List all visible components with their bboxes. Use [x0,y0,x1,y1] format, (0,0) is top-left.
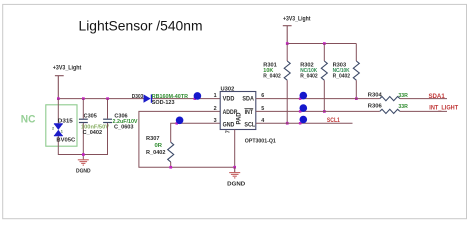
svg-text:C_0402: C_0402 [83,130,103,136]
wire: diode cathode to U302 pin1 [152,98,220,100]
resistor R303 [355,44,357,62]
power symbol +3V3_Light (left) [55,76,64,99]
svg-text:R_0402: R_0402 [333,74,351,80]
wire: ADDR pin2 to ground loop [139,111,235,167]
ground DGND (under U302) [229,167,240,178]
wire: SCL net pin4 [256,122,353,124]
node: junction pad stem/gnd rail [233,166,236,169]
svg-text:2: 2 [52,127,54,131]
node: blue dot column SDA [299,97,302,100]
wire: C306 bottom stem to gnd rail [83,123,107,155]
svg-text:C_0603: C_0603 [114,124,134,130]
svg-text:R_0402: R_0402 [146,150,166,156]
resistor R301 [286,44,288,62]
power symbol +3V3_Light (right) [283,26,292,44]
svg-text:INT: INT [245,109,254,116]
node: blue dot column SCL [299,122,302,125]
wire: R307 bottom lead [170,162,172,167]
svg-text:SCL: SCL [244,121,255,128]
node: junction bus/R302 [323,42,326,45]
svg-text:D315: D315 [58,119,74,125]
capacitor C305 [79,119,88,122]
svg-text:SDA1: SDA1 [429,94,446,100]
wire: R304 to SDA1 [400,98,447,100]
svg-text:R_0402: R_0402 [300,74,318,80]
svg-text:SCL1: SCL1 [327,118,341,124]
node: blue dot column INT [299,110,302,113]
svg-text:0R: 0R [155,143,163,149]
svg-text:NC: NC [21,113,36,125]
svg-text:+3V3_Light: +3V3_Light [283,17,311,23]
svg-text:D303: D303 [132,94,144,100]
wire: INT net pin5 to R306 [256,110,380,112]
svg-text:BV05C: BV05C [56,138,76,144]
svg-text:PAD: PAD [236,112,243,125]
svg-text:C305: C305 [84,113,98,119]
svg-text:VDD: VDD [223,96,235,103]
node: blue dot on VDD wire [194,98,197,101]
svg-text:U302: U302 [221,87,235,93]
node: blue dot at R307 top [176,122,179,125]
node: junction R302/INT [323,110,326,113]
wire: top pull-up bus [287,43,356,45]
resistor R307 zigzag [168,142,174,162]
wire: C305 bottom stem [82,123,84,160]
svg-text:33R: 33R [398,104,408,110]
wire: D315 top stem [57,99,59,125]
svg-text:R304: R304 [368,92,383,98]
resistor R304 zigzag [380,97,400,101]
svg-text:R306: R306 [368,104,383,110]
svg-text:LightSensor /540nm: LightSensor /540nm [79,18,203,34]
svg-text:DGND: DGND [227,181,245,187]
svg-text:OPT3001-Q1: OPT3001-Q1 [245,138,277,144]
node: junction R307/gnd rail [169,166,172,169]
wire: pin7 pad stem [234,130,236,168]
wire: D315 bottom stem to gnd rail [58,135,83,154]
wire: SDA net pin6 to R304 [256,98,380,100]
svg-text:SOD-123: SOD-123 [152,100,176,106]
node: junction R303/SDA [355,97,358,100]
svg-text:GND: GND [223,121,235,128]
svg-text:SDA: SDA [242,96,254,103]
node: junction bus/power stem [57,97,60,100]
svg-text:3: 3 [214,118,217,124]
svg-text:+3V3_Light: +3V3_Light [53,65,82,71]
svg-text:R_0402: R_0402 [263,74,281,80]
resistor R306 zigzag [380,109,400,113]
node: junction bus/C305 [82,97,85,100]
svg-text:33R: 33R [398,93,408,99]
svg-text:R307: R307 [146,136,160,142]
node: junction bus/power stem [286,42,289,45]
diode D315 (TVS bowtie) [54,124,63,136]
op-amp/IC U302 box [220,92,256,130]
wire: C306 top stem [107,99,109,119]
node: gnd rail junction [82,153,85,156]
node: junction bus/C306 [106,97,109,100]
svg-text:2: 2 [214,106,217,112]
resistor R302 [323,44,325,62]
svg-text:DGND: DGND [76,168,91,174]
wire: GND pin3 to R307 top [171,123,221,142]
diode D303 [144,94,151,102]
capacitor C306 [103,119,112,122]
wire: R306 to INT_LIGHT [400,110,447,112]
ground DGND (left) [78,160,89,165]
svg-text:1: 1 [61,130,63,134]
node: junction R301/SCL [286,122,289,125]
wire: left VDD bus [58,98,143,100]
wire: C305 top stem [82,99,84,119]
svg-text:1: 1 [214,93,217,99]
green NC box around D315 [46,105,77,146]
svg-text:INT_LIGHT: INT_LIGHT [429,106,458,112]
svg-text:7: 7 [226,130,232,133]
